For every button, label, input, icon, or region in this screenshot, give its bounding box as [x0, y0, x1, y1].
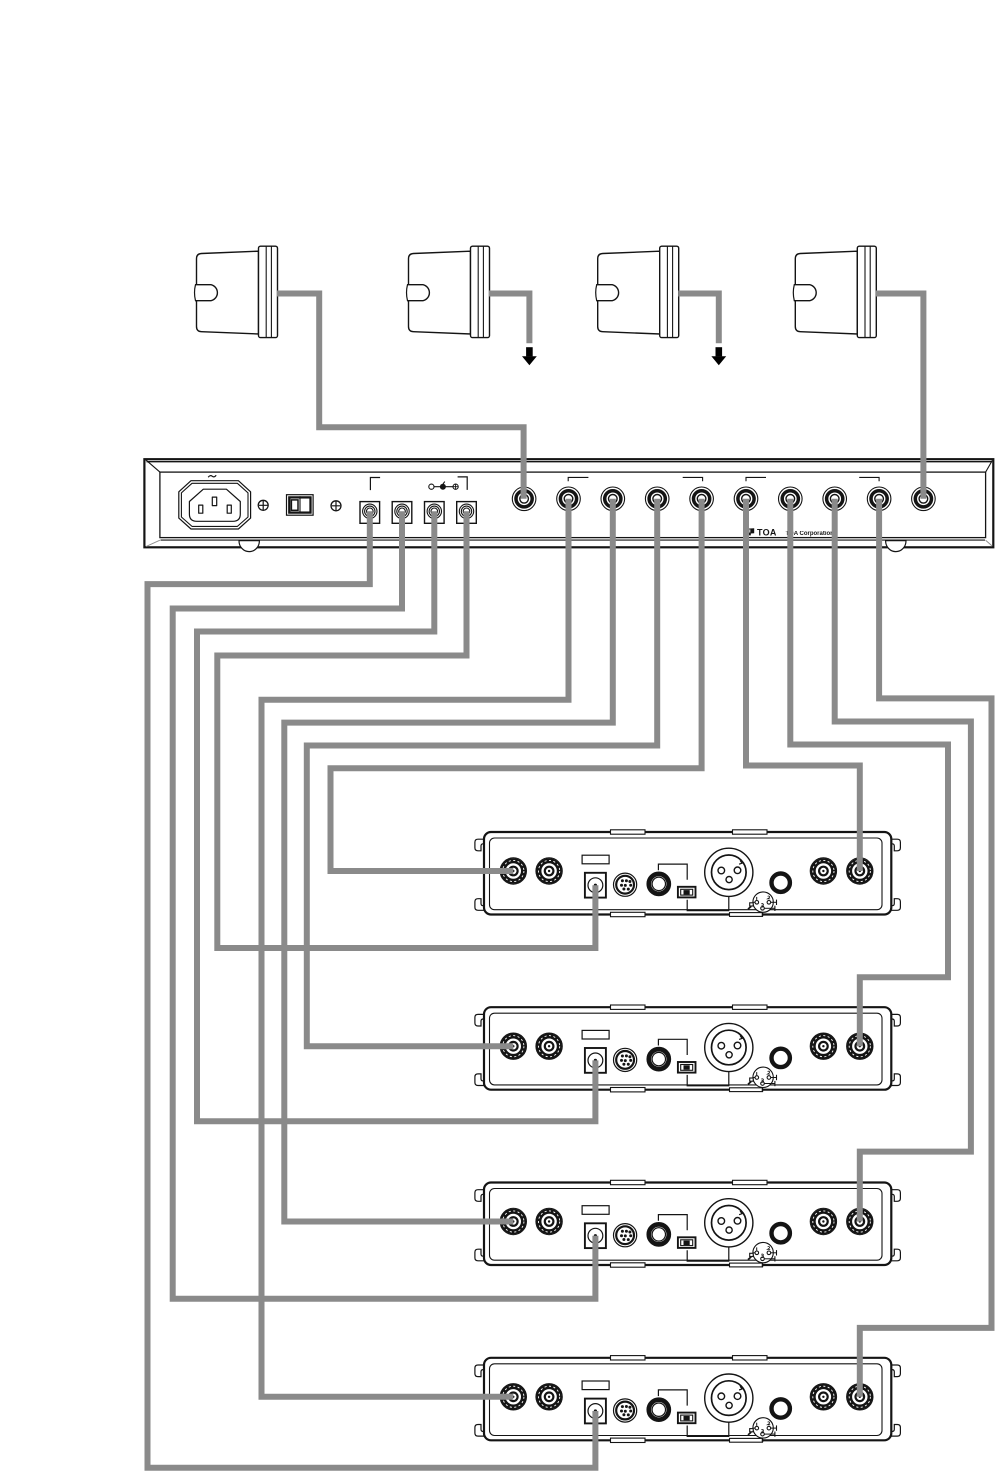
svg-text:TOA: TOA	[757, 527, 777, 537]
panel foot left	[239, 541, 259, 552]
arrow antenna 3	[711, 347, 726, 365]
wire tuner out 3 to receiver 2 antenna A	[307, 499, 657, 1046]
panel foot right	[886, 541, 906, 552]
DC out jack 1	[360, 502, 380, 524]
antenna 3	[596, 246, 679, 337]
TOA Corporation text	[786, 531, 835, 537]
arrow antenna 2	[522, 347, 537, 365]
wire antenna 4 to panel antenna input B	[876, 294, 924, 499]
tuner out BNC 4	[690, 487, 714, 511]
DC out jack 4	[457, 502, 477, 524]
tuner out BNC 1	[557, 487, 581, 511]
tuner out bracket 3	[746, 477, 766, 481]
wire tuner out 1 to receiver 4 antenna A	[262, 499, 569, 1397]
antenna 1	[195, 246, 278, 337]
wire DC jack 4 to receiver 1 power	[217, 511, 595, 948]
tuner out BNC 7	[823, 487, 847, 511]
tuner rack unit rear panel	[144, 459, 993, 547]
wire tuner out 4 to receiver 1 antenna A	[331, 499, 702, 871]
wire tuner out 2 to receiver 3 antenna A	[284, 499, 613, 1222]
TOA logo text	[757, 527, 777, 537]
tuner out bracket 2	[683, 477, 703, 481]
wire DC jack 3 to receiver 2 power	[197, 511, 595, 1121]
TOA logo mark	[748, 528, 755, 535]
antenna input BNC A	[512, 487, 536, 511]
wire stub antenna 2	[489, 294, 529, 344]
wire antenna 1 to panel antenna input A	[277, 294, 524, 499]
AC inlet	[179, 481, 251, 529]
tuner out bracket 1	[568, 477, 588, 481]
wire tuner out 7 to receiver 3 antenna B	[835, 499, 971, 1222]
wire tuner out 6 to receiver 2 antenna B	[790, 499, 948, 1046]
wire tuner out 5 to receiver 1 antenna B	[746, 499, 860, 871]
receiver 3	[475, 1180, 901, 1267]
tuner out BNC 5	[734, 487, 758, 511]
DC out jack 3	[425, 502, 445, 524]
polarity diagram	[429, 482, 458, 490]
DC out bracket right	[458, 477, 468, 490]
wire DC jack 1 to receiver 4 power	[148, 511, 596, 1468]
receiver 2	[475, 1005, 901, 1092]
tuner out BNC 8	[867, 487, 891, 511]
AC tilde mark	[208, 475, 216, 477]
DC out bracket left	[370, 478, 380, 491]
antenna input BNC B	[912, 487, 936, 511]
screw left	[258, 500, 268, 510]
antenna 4	[793, 246, 876, 337]
tuner out BNC 3	[645, 487, 669, 511]
wire tuner out 8 to receiver 4 antenna B	[860, 499, 992, 1397]
antenna 2	[407, 246, 490, 337]
screw right	[331, 501, 341, 511]
receiver 1	[475, 830, 901, 917]
wire DC jack 2 to receiver 3 power	[173, 511, 596, 1299]
receiver 4	[475, 1356, 901, 1443]
tuner out BNC 2	[601, 487, 625, 511]
power switch	[287, 495, 314, 516]
DC out jack 2	[392, 502, 412, 524]
tuner out BNC 6	[779, 487, 803, 511]
tuner out bracket 4	[859, 477, 879, 481]
wire stub antenna 3	[678, 294, 719, 344]
